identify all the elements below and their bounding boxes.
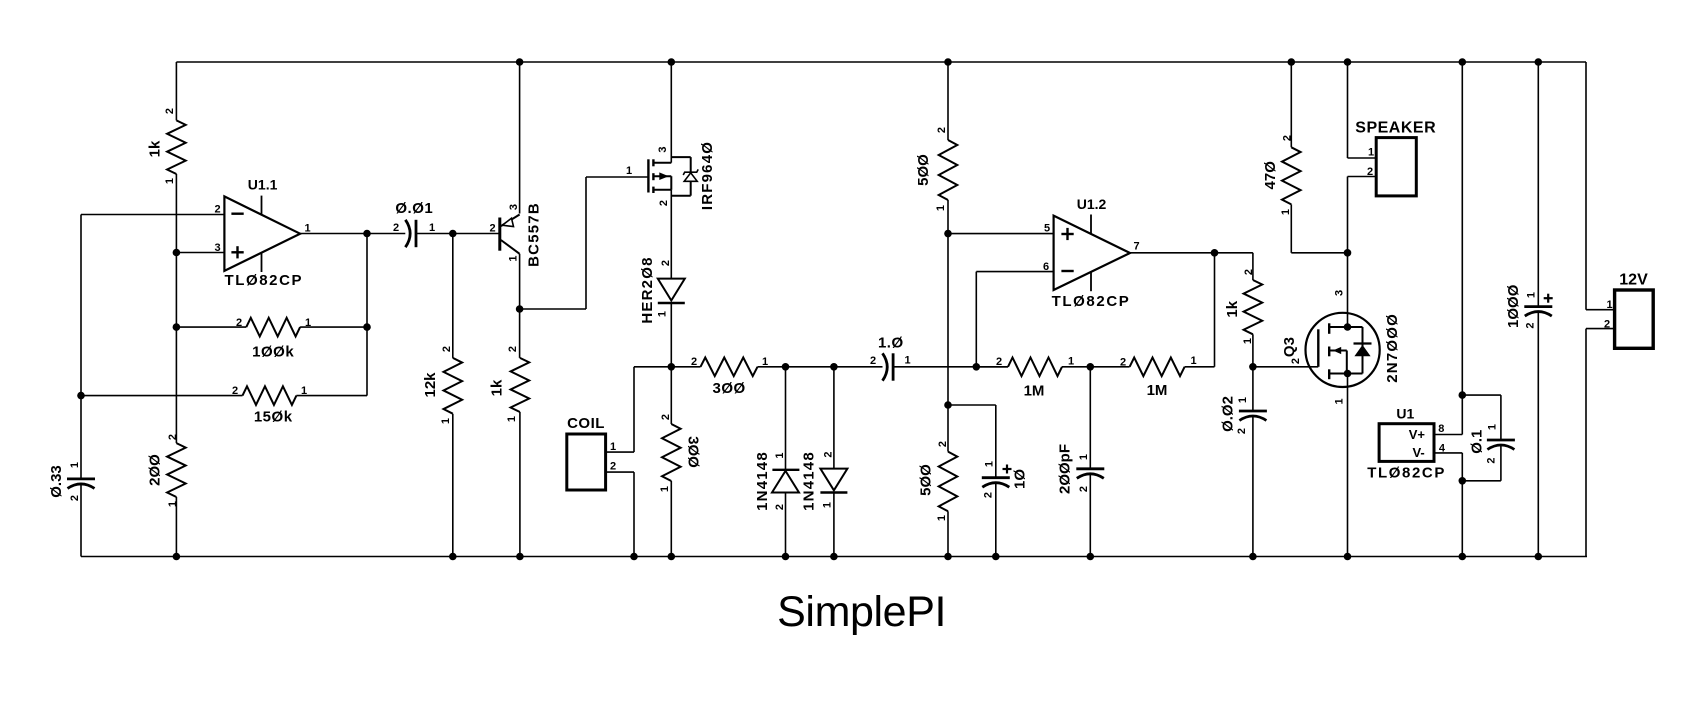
pin 2 of HER208 bbox=[660, 260, 672, 266]
svg-text:1: 1 bbox=[69, 462, 81, 468]
label U1.1 bbox=[248, 177, 278, 193]
pin 2 of 470 bbox=[1282, 135, 1294, 141]
resistor R 12k bbox=[444, 358, 463, 414]
svg-text:2: 2 bbox=[167, 434, 179, 440]
diode D 1N4148 down bbox=[820, 469, 847, 493]
node 200pF ground bbox=[1087, 553, 1095, 561]
wire down to 200 resistor bbox=[175, 327, 177, 443]
svg-text:1: 1 bbox=[164, 178, 176, 184]
svg-text:1: 1 bbox=[1237, 397, 1249, 403]
svg-text:U1: U1 bbox=[1396, 405, 1414, 421]
wire 300 damping to bottom rail bbox=[670, 481, 672, 557]
wire - node to 1M a bbox=[976, 366, 1008, 368]
pin 1 of 1N4148 up bbox=[774, 452, 786, 458]
label 0.33 bbox=[48, 465, 65, 498]
svg-text:1: 1 bbox=[935, 205, 947, 211]
resistor R 1k bbox=[167, 120, 186, 174]
wire U1.1 output bbox=[300, 233, 405, 235]
pin 3 of IRF9640 bbox=[657, 146, 669, 152]
label 1M a bbox=[1024, 382, 1045, 399]
wire speaker pin 2 to drain node bbox=[1348, 177, 1377, 253]
wire junction down to 100k node bbox=[175, 253, 177, 328]
capacitor 0.1 bbox=[1487, 440, 1515, 450]
wire BC557B collector down bbox=[519, 254, 521, 358]
wire U1.2 output bbox=[1130, 252, 1253, 254]
pin 1 of 0.33 bbox=[69, 462, 81, 468]
label 10 bbox=[1011, 469, 1028, 489]
pin 2 of IRF9640 bbox=[658, 200, 670, 206]
node junction 150k left bbox=[77, 392, 85, 400]
pin 1 of 470 bbox=[1280, 209, 1292, 215]
label 300 damping bbox=[685, 436, 702, 468]
svg-text:1: 1 bbox=[1334, 398, 1346, 404]
svg-text:2: 2 bbox=[983, 492, 995, 498]
resistor R 100k bbox=[246, 318, 300, 337]
node 500 top rail bbox=[944, 58, 952, 66]
label 300 series bbox=[713, 380, 746, 397]
resistor R 300 damping bbox=[662, 424, 681, 481]
wire 1000 cap to bottom rail bbox=[1537, 312, 1539, 557]
pin 2 of U1.1 bbox=[214, 204, 220, 216]
wire 1k collector to bottom rail bbox=[519, 412, 521, 557]
pin 1 of 12k bbox=[440, 418, 452, 424]
wire 1k to + input junction bbox=[175, 174, 177, 253]
node V+ bypass junction bbox=[1459, 391, 1467, 399]
capacitor 10 polarized bbox=[982, 465, 1012, 488]
node speaker top rail bbox=[1344, 58, 1352, 66]
svg-text:2: 2 bbox=[774, 504, 786, 510]
pin 2 of 200pF bbox=[1078, 486, 1090, 492]
wire IRF9640 source to HER208 bbox=[670, 190, 672, 279]
wire to 500 bottom bbox=[947, 405, 949, 452]
wire + input U1.2 bbox=[948, 233, 1054, 235]
pin 2 of 500 bottom bbox=[937, 441, 949, 447]
pin 2 of 12V bbox=[1604, 319, 1610, 331]
svg-text:8: 8 bbox=[1438, 423, 1444, 435]
svg-text:2: 2 bbox=[823, 451, 835, 457]
svg-text:IRF964Ø: IRF964Ø bbox=[699, 141, 716, 210]
wire - input U1.2 bbox=[976, 272, 1053, 367]
wire V- pin lead bbox=[1434, 453, 1462, 557]
wire 150k left lead bbox=[81, 395, 243, 397]
node diode 1 ground bbox=[782, 553, 790, 561]
wire diode 1 lead bbox=[785, 367, 787, 470]
wire collector to IRF9640 gate bbox=[520, 177, 649, 309]
transistor Q3 2N7000 bbox=[1306, 313, 1380, 387]
wire top rail to V+ pin bbox=[1461, 62, 1463, 435]
wire 200 to bottom rail bbox=[175, 497, 177, 557]
resistor R 1M b bbox=[1130, 358, 1185, 377]
label 0.02 bbox=[1219, 396, 1236, 432]
pin 2 of 1k collector bbox=[507, 346, 519, 352]
svg-text:2: 2 bbox=[1486, 457, 1498, 463]
pin 2 of 0.01 bbox=[393, 222, 399, 234]
pin 2 of Q3 bbox=[1290, 358, 1302, 364]
node + input junction bbox=[173, 249, 181, 257]
pin 1 of 1N4148 down bbox=[822, 502, 834, 508]
label 1000 bbox=[1505, 284, 1522, 328]
pin 1 of 1M a bbox=[1068, 356, 1074, 368]
node 1000 top rail bbox=[1535, 58, 1543, 66]
svg-text:3: 3 bbox=[214, 242, 220, 254]
node gate junction bbox=[1249, 363, 1257, 371]
svg-text:2: 2 bbox=[1282, 135, 1294, 141]
battery 12V bbox=[1615, 290, 1654, 348]
pin 2 of 300 series bbox=[691, 356, 697, 368]
pin 1 of 1k gate bbox=[1242, 338, 1254, 344]
svg-text:2: 2 bbox=[658, 200, 670, 206]
node feedback 100k junction bbox=[363, 323, 371, 331]
svg-text:V+: V+ bbox=[1409, 427, 1426, 442]
node 500 bottom junction bbox=[944, 401, 952, 409]
svg-text:2: 2 bbox=[1078, 486, 1090, 492]
diode D 1N4148 up bbox=[772, 470, 799, 493]
svg-text:1: 1 bbox=[1487, 424, 1499, 430]
wire top rail to speaker pin 1 bbox=[1348, 62, 1377, 158]
title SimplePI bbox=[777, 588, 946, 636]
wire + node down to 10 cap branch bbox=[947, 234, 949, 405]
svg-text:15Øk: 15Øk bbox=[254, 409, 293, 426]
label 200 bbox=[147, 454, 164, 486]
svg-text:1: 1 bbox=[1078, 454, 1090, 460]
svg-text:2: 2 bbox=[214, 204, 220, 216]
svg-text:2: 2 bbox=[937, 441, 949, 447]
wire BC557B emitter to top rail bbox=[519, 62, 521, 214]
svg-text:2: 2 bbox=[393, 222, 399, 234]
wire 0.33 cap to bottom rail bbox=[80, 484, 82, 557]
svg-text:1: 1 bbox=[305, 317, 311, 329]
svg-text:1: 1 bbox=[508, 255, 520, 261]
wire gate node to 0.02 bbox=[1252, 367, 1254, 411]
wire 0.02 to bottom rail bbox=[1252, 416, 1254, 557]
transistor Q BC557B bbox=[500, 215, 520, 254]
svg-text:12k: 12k bbox=[422, 372, 439, 398]
pin 1 of 150k bbox=[301, 385, 307, 397]
pin 1 of HER208 bbox=[657, 311, 669, 317]
wire + input bbox=[176, 252, 224, 254]
wire U1.1 inverting input to left column bbox=[81, 214, 224, 216]
wire top rail to 1000 cap bbox=[1537, 62, 1539, 307]
pin 5 of U1.2 bbox=[1044, 223, 1050, 235]
svg-text:1: 1 bbox=[1526, 292, 1538, 298]
svg-text:1N4148: 1N4148 bbox=[800, 451, 817, 511]
wire 0.01 to base node bbox=[416, 233, 453, 235]
pin 1 of 200pF bbox=[1078, 454, 1090, 460]
label V+ bbox=[1409, 427, 1426, 442]
svg-text:COIL: COIL bbox=[567, 415, 605, 432]
resistor R 1M a bbox=[1008, 358, 1062, 377]
node emitter top rail bbox=[516, 58, 524, 66]
label TL082CP U1.1 bbox=[224, 272, 303, 289]
node output junction bbox=[363, 230, 371, 238]
svg-text:TLØ82CP: TLØ82CP bbox=[1367, 465, 1446, 482]
pin 1 of 300 series bbox=[762, 356, 768, 368]
svg-text:Ø.33: Ø.33 bbox=[48, 465, 65, 498]
node Q3 drain junction bbox=[1344, 249, 1352, 257]
wire left column down to 0.33 cap bbox=[80, 215, 82, 479]
pin 3 of BC557B bbox=[508, 204, 520, 210]
svg-text:1k: 1k bbox=[146, 140, 163, 157]
svg-text:2ØØpF: 2ØØpF bbox=[1057, 444, 1074, 494]
svg-text:1ØØØ: 1ØØØ bbox=[1505, 284, 1522, 328]
svg-text:1M: 1M bbox=[1147, 382, 1168, 399]
connector COIL bbox=[567, 434, 606, 490]
label U1.2 bbox=[1077, 196, 1107, 212]
resistor R 1k gate bbox=[1244, 280, 1263, 334]
op-amp U1.2 bbox=[1054, 215, 1130, 292]
wire 500 top to + node bbox=[947, 200, 949, 234]
label 200pF bbox=[1057, 444, 1074, 494]
wire 200pF to bottom rail bbox=[1089, 474, 1091, 557]
svg-text:4: 4 bbox=[1439, 443, 1446, 455]
svg-text:2: 2 bbox=[69, 495, 81, 501]
pin 1 of 1k bbox=[164, 178, 176, 184]
wire V+ node to 0.1 cap bbox=[1462, 395, 1501, 440]
svg-text:1: 1 bbox=[506, 416, 518, 422]
svg-text:2: 2 bbox=[236, 317, 242, 329]
capacitor 0.33 bbox=[67, 479, 95, 489]
svg-text:TLØ82CP: TLØ82CP bbox=[224, 272, 303, 289]
pin 1 of Q3 bbox=[1334, 398, 1346, 404]
wire 1.0 cap to - node bbox=[893, 366, 1008, 368]
wire output to 1k gate bbox=[1252, 253, 1254, 280]
pin 2 of BC557B bbox=[489, 223, 495, 235]
wire HER208 to coil node bbox=[670, 303, 672, 367]
svg-text:1: 1 bbox=[1190, 355, 1196, 367]
svg-text:2: 2 bbox=[610, 461, 616, 473]
svg-text:2: 2 bbox=[870, 355, 876, 367]
pin 2 of 100k bbox=[236, 317, 242, 329]
node 100k left junction bbox=[173, 323, 181, 331]
svg-text:1: 1 bbox=[1280, 209, 1292, 215]
resistor R 500 top bbox=[939, 140, 958, 200]
pin 1 of 100k bbox=[305, 317, 311, 329]
svg-text:SimplePI: SimplePI bbox=[777, 588, 946, 636]
label 100k bbox=[252, 344, 294, 361]
svg-text:HER2Ø8: HER2Ø8 bbox=[639, 256, 656, 323]
wire top rail to 470 bbox=[1290, 62, 1292, 147]
wire coil node to 300 bbox=[670, 367, 672, 424]
svg-text:1: 1 bbox=[822, 502, 834, 508]
wire top power rail bbox=[176, 61, 1586, 63]
pin 8 of U1 bbox=[1438, 423, 1444, 435]
capacitor 0.01 bbox=[405, 220, 416, 247]
svg-text:7: 7 bbox=[1133, 241, 1139, 253]
wire IRF9640 drain to top rail bbox=[670, 62, 672, 163]
label 1.0 bbox=[878, 334, 904, 351]
pin 1 of 0.1 bbox=[1487, 424, 1499, 430]
svg-text:Ø.Ø1: Ø.Ø1 bbox=[395, 200, 433, 217]
svg-text:1: 1 bbox=[1068, 356, 1074, 368]
pin 3 of Q3 bbox=[1334, 290, 1346, 296]
wire 12V pin 2 to bottom rail bbox=[1586, 329, 1615, 557]
pin 2 of 1N4148 up bbox=[774, 504, 786, 510]
svg-text:2: 2 bbox=[232, 385, 238, 397]
svg-text:2: 2 bbox=[1243, 269, 1255, 275]
pin 1 of 12V bbox=[1606, 299, 1612, 311]
svg-text:2: 2 bbox=[489, 223, 495, 235]
svg-text:1k: 1k bbox=[488, 379, 505, 396]
svg-text:Q3: Q3 bbox=[1281, 337, 1298, 357]
node 500 bottom ground bbox=[944, 553, 952, 561]
svg-text:2: 2 bbox=[1604, 319, 1610, 331]
pin 1 of 1k collector bbox=[506, 416, 518, 422]
node inverting junction bbox=[973, 363, 981, 371]
pin 3 of U1.1 bbox=[214, 242, 220, 254]
svg-text:2: 2 bbox=[441, 346, 453, 352]
svg-text:2ØØ: 2ØØ bbox=[147, 454, 164, 486]
svg-text:47Ø: 47Ø bbox=[1262, 161, 1279, 190]
svg-text:1: 1 bbox=[774, 452, 786, 458]
wire base node down to 12k bbox=[452, 234, 454, 358]
label 470 bbox=[1262, 161, 1279, 190]
pin 1 of 0.02 bbox=[1237, 397, 1249, 403]
node 470 top rail bbox=[1288, 58, 1296, 66]
label TL082CP U1.2 bbox=[1052, 293, 1131, 310]
wire top rail to 500 top bbox=[947, 62, 949, 140]
capacitor 200pF bbox=[1076, 469, 1104, 479]
label IRF9640 bbox=[699, 141, 716, 210]
node coil junction bbox=[668, 363, 676, 371]
wire feedback vertical bbox=[366, 234, 368, 396]
node 200 ground bbox=[173, 553, 181, 561]
wire top rail to 1k bbox=[175, 62, 177, 120]
svg-text:1ØØk: 1ØØk bbox=[252, 344, 294, 361]
label U1 bbox=[1396, 405, 1414, 421]
op-amp U1.1 bbox=[224, 196, 300, 272]
svg-text:BC557B: BC557B bbox=[525, 202, 542, 267]
svg-text:1: 1 bbox=[610, 441, 616, 453]
capacitor 1000 polarized bbox=[1524, 294, 1552, 316]
pin 2 of SPEAKER bbox=[1367, 166, 1373, 178]
label 500 top bbox=[915, 154, 932, 186]
wire 100k left lead bbox=[176, 326, 246, 328]
node 10 cap ground bbox=[992, 553, 1000, 561]
pin 1 of 10 bbox=[984, 461, 996, 467]
svg-text:2: 2 bbox=[507, 346, 519, 352]
label 500 bottom bbox=[917, 464, 934, 496]
pin 2 of 12k bbox=[441, 346, 453, 352]
wire Q3 source to bottom rail bbox=[1347, 374, 1349, 557]
svg-text:U1.2: U1.2 bbox=[1077, 196, 1107, 212]
node Q3 source ground bbox=[1344, 553, 1352, 561]
svg-text:1: 1 bbox=[657, 311, 669, 317]
label 12k bbox=[422, 372, 439, 398]
pin 2 of 500 top bbox=[936, 127, 948, 133]
pin 2 of 300 damping bbox=[660, 414, 672, 420]
label 1M b bbox=[1147, 382, 1168, 399]
pin 1 of 500 bottom bbox=[936, 515, 948, 521]
svg-text:1: 1 bbox=[440, 418, 452, 424]
svg-text:TLØ82CP: TLØ82CP bbox=[1052, 293, 1131, 310]
pin 1 of 200 bbox=[167, 501, 179, 507]
label 150k bbox=[254, 409, 293, 426]
svg-text:1: 1 bbox=[936, 515, 948, 521]
wire Q3 drain up bbox=[1347, 253, 1349, 327]
svg-text:2: 2 bbox=[1290, 358, 1302, 364]
pin 1 of 1M b bbox=[1190, 355, 1196, 367]
pin 2 of 0.1 bbox=[1486, 457, 1498, 463]
wire 10 cap to bottom rail bbox=[995, 483, 997, 557]
node collector junction bbox=[516, 305, 524, 313]
label TL082CP U1 bbox=[1367, 465, 1446, 482]
svg-text:2: 2 bbox=[164, 108, 176, 114]
wire gate node to Q3 gate bbox=[1253, 366, 1318, 368]
node 12k ground bbox=[449, 553, 457, 561]
label BC557B bbox=[525, 202, 542, 267]
capacitor 0.02 bbox=[1239, 411, 1267, 421]
svg-text:Ø.1: Ø.1 bbox=[1468, 430, 1485, 454]
pin 1 of BC557B bbox=[508, 255, 520, 261]
svg-text:Ø.Ø2: Ø.Ø2 bbox=[1219, 396, 1236, 432]
pin 2 of 1.0 bbox=[870, 355, 876, 367]
svg-text:1: 1 bbox=[1606, 299, 1612, 311]
svg-text:1M: 1M bbox=[1024, 382, 1045, 399]
wire 300 series to clamp node bbox=[758, 366, 786, 368]
ic U1 power box bbox=[1379, 424, 1434, 462]
svg-text:2: 2 bbox=[660, 260, 672, 266]
wire 150k right lead bbox=[296, 395, 367, 397]
node 1000 ground bbox=[1535, 553, 1543, 561]
svg-text:1: 1 bbox=[301, 385, 307, 397]
pin 2 of 1M a bbox=[996, 356, 1002, 368]
wire 1M b to feedback vertical bbox=[1185, 253, 1215, 367]
svg-text:12V: 12V bbox=[1619, 272, 1648, 289]
svg-text:6: 6 bbox=[1043, 261, 1049, 273]
svg-text:2N7ØØØ: 2N7ØØØ bbox=[1384, 313, 1401, 383]
svg-text:3: 3 bbox=[508, 204, 520, 210]
svg-text:2: 2 bbox=[660, 414, 672, 420]
pin 2 of 1000 bbox=[1525, 322, 1537, 328]
diode D HER208 bbox=[658, 279, 685, 303]
node output 2 junction bbox=[1211, 249, 1219, 257]
svg-text:1: 1 bbox=[984, 461, 996, 467]
wire clamp nodes bbox=[786, 366, 834, 368]
wire 500 bottom to bottom rail bbox=[947, 511, 949, 556]
node 0.02 ground bbox=[1249, 553, 1257, 561]
resistor R 500 bottom bbox=[939, 452, 958, 512]
node noninverting junction bbox=[944, 230, 952, 238]
pin 2 of 150k bbox=[232, 385, 238, 397]
capacitor 1.0 bbox=[883, 353, 894, 380]
svg-text:SPEAKER: SPEAKER bbox=[1355, 120, 1436, 137]
svg-text:1Ø: 1Ø bbox=[1011, 469, 1028, 489]
svg-text:5ØØ: 5ØØ bbox=[915, 154, 932, 186]
resistor R 1k collector bbox=[511, 358, 530, 412]
pin 2 of 0.33 bbox=[69, 495, 81, 501]
pin 1 of SPEAKER bbox=[1368, 147, 1374, 159]
svg-text:2: 2 bbox=[1120, 357, 1126, 369]
label 2N7000 bbox=[1384, 313, 1401, 383]
label SPEAKER bbox=[1355, 120, 1436, 137]
svg-text:2: 2 bbox=[996, 356, 1002, 368]
svg-text:3ØØ: 3ØØ bbox=[685, 436, 702, 468]
svg-text:U1.1: U1.1 bbox=[248, 177, 278, 193]
svg-text:1: 1 bbox=[626, 165, 632, 177]
label 12V bbox=[1619, 272, 1648, 289]
label 1N4148 up bbox=[754, 451, 771, 511]
pin 6 of U1.2 bbox=[1043, 261, 1049, 273]
label 0.01 bbox=[395, 200, 433, 217]
svg-text:1.Ø: 1.Ø bbox=[878, 334, 904, 351]
label COIL bbox=[567, 415, 605, 432]
pin 1 of 500 top bbox=[935, 205, 947, 211]
svg-text:2: 2 bbox=[1367, 166, 1373, 178]
wire V+ pin lead bbox=[1434, 434, 1462, 436]
pin 1 of 1.0 bbox=[904, 355, 910, 367]
svg-text:3ØØ: 3ØØ bbox=[713, 380, 746, 397]
svg-text:1: 1 bbox=[1368, 147, 1374, 159]
